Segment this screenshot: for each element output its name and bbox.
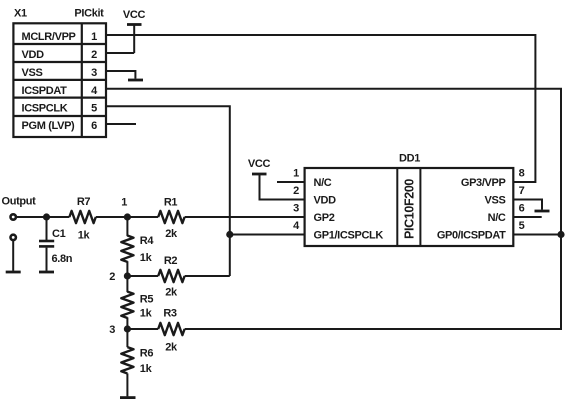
svg-text:6: 6: [91, 120, 97, 132]
svg-text:2: 2: [91, 49, 97, 61]
wire R6 to ground: [126, 373, 128, 396]
svg-text:DD1: DD1: [399, 153, 420, 165]
svg-text:R1: R1: [164, 196, 178, 208]
junction dot ICSPCLK at DD1.4: [226, 231, 233, 238]
wire R7 to node 1 and R1 to DD1.3 GP2: [96, 216, 305, 218]
ground symbol at output terminal: [6, 271, 21, 274]
resistor R3: [158, 323, 184, 335]
svg-text:2: 2: [293, 185, 299, 197]
svg-text:4: 4: [91, 85, 98, 97]
wire output terminal to C1 node: [17, 216, 70, 218]
wire X1.2 VDD to VCC: [106, 52, 134, 54]
svg-text:1: 1: [91, 31, 97, 43]
wire X1.5 ICSPCLK to DD1.4 and R2: [106, 106, 230, 276]
svg-text:4: 4: [293, 220, 300, 232]
svg-text:2: 2: [109, 271, 115, 283]
wire ground terminal stem: [12, 241, 14, 271]
svg-text:ICSPCLK: ICSPCLK: [22, 102, 68, 114]
svg-text:VDD: VDD: [314, 195, 337, 207]
svg-text:5: 5: [519, 220, 525, 232]
svg-text:VSS: VSS: [22, 67, 43, 79]
svg-text:7: 7: [519, 185, 525, 197]
svg-text:1k: 1k: [140, 363, 153, 375]
svg-text:1: 1: [293, 168, 299, 180]
output terminal ground: [11, 235, 16, 240]
svg-text:3: 3: [109, 324, 115, 336]
svg-text:PGM (LVP): PGM (LVP): [22, 120, 76, 132]
junction dot node 1: [124, 213, 131, 220]
svg-text:VDD: VDD: [22, 49, 45, 61]
svg-text:R6: R6: [140, 348, 154, 360]
VCC symbol at DD1: [248, 158, 271, 174]
svg-text:1k: 1k: [140, 308, 153, 320]
junction dot at C1 node: [43, 213, 50, 220]
wire DD1.4 stub to ICSPCLK junction: [230, 234, 305, 236]
svg-text:R3: R3: [163, 308, 177, 320]
resistor R5: [121, 292, 133, 318]
wire X1.3 VSS to ground: [106, 71, 135, 79]
DD1 pin 1 stub (N/C): [277, 181, 305, 183]
wire VCC to DD1.2 VDD: [260, 174, 305, 200]
svg-text:R4: R4: [140, 235, 155, 247]
VCC symbol at X1: [123, 9, 146, 53]
svg-text:6.8n: 6.8n: [52, 253, 73, 265]
svg-text:R5: R5: [140, 293, 154, 305]
svg-text:1k: 1k: [140, 252, 153, 264]
IC DD1 box: [305, 168, 514, 246]
svg-text:MCLR/VPP: MCLR/VPP: [22, 31, 76, 43]
wire X1.4 ICSPDAT to DD1.5 and R3: [106, 89, 561, 329]
svg-text:N/C: N/C: [488, 212, 506, 224]
svg-text:3: 3: [293, 203, 299, 215]
DD1 pin 6 stub (N/C): [513, 216, 541, 218]
connector X1 (PICkit header) box: [13, 23, 106, 137]
junction dot node 3: [124, 325, 131, 332]
svg-text:GP1/ICSPCLK: GP1/ICSPCLK: [314, 230, 384, 242]
ground symbol at DD1 VSS: [535, 210, 550, 213]
svg-text:GP2: GP2: [314, 212, 335, 224]
svg-text:2k: 2k: [165, 342, 178, 354]
svg-text:1: 1: [121, 196, 127, 208]
resistor R7: [69, 211, 95, 223]
wire R5 to node 3: [126, 317, 128, 329]
resistor R2: [158, 270, 184, 282]
junction dot node 2: [124, 272, 131, 279]
svg-text:N/C: N/C: [314, 177, 332, 189]
resistor R4: [121, 236, 133, 262]
wire R4 to node 2: [126, 261, 128, 276]
output terminal signal: [11, 214, 16, 219]
svg-text:3: 3: [91, 67, 97, 79]
svg-text:Output: Output: [2, 196, 37, 208]
wire node 3 to R6: [126, 329, 128, 347]
wire DD1.5 GP0/ICSPDAT to ICSPDAT net: [513, 234, 561, 236]
svg-text:2k: 2k: [165, 287, 178, 299]
svg-text:R7: R7: [77, 196, 91, 208]
svg-text:VCC: VCC: [248, 158, 271, 170]
capacitor C1: [39, 217, 54, 271]
svg-text:6: 6: [519, 203, 525, 215]
svg-text:VSS: VSS: [485, 195, 506, 207]
wire R2 to ICSPCLK net: [185, 275, 230, 277]
wire node 1 to R4: [126, 217, 128, 236]
svg-text:GP0/ICSPDAT: GP0/ICSPDAT: [437, 230, 506, 242]
ground symbol at R6: [120, 396, 136, 399]
ground symbol at C1: [39, 271, 54, 274]
svg-text:R2: R2: [164, 255, 178, 267]
wire node 2 to R5: [126, 276, 128, 292]
svg-text:ICSPDAT: ICSPDAT: [22, 85, 68, 97]
wire node 3 to R3: [127, 328, 158, 330]
wire X1.6 PGM stub (n/c): [106, 123, 136, 125]
svg-text:GP3/VPP: GP3/VPP: [461, 177, 506, 189]
resistor R6: [121, 347, 133, 373]
svg-text:2k: 2k: [165, 228, 178, 240]
junction dot ICSPDAT at DD1.5: [557, 231, 564, 238]
svg-text:PICkit: PICkit: [74, 8, 104, 20]
svg-text:PIC10F200: PIC10F200: [403, 179, 417, 239]
svg-text:VCC: VCC: [123, 9, 146, 21]
svg-text:1k: 1k: [78, 230, 91, 242]
resistor R1: [158, 211, 184, 223]
svg-text:8: 8: [519, 168, 525, 180]
svg-text:X1: X1: [14, 8, 27, 20]
wire DD1.7 VSS to ground: [513, 200, 542, 210]
ground symbol at X1 VSS: [128, 79, 143, 82]
svg-text:C1: C1: [52, 228, 66, 240]
wire X1.1 MCLR/VPP to DD1.8 GP3/VPP: [106, 35, 535, 182]
svg-text:5: 5: [91, 102, 97, 114]
wire node 2 to R2: [127, 275, 158, 277]
